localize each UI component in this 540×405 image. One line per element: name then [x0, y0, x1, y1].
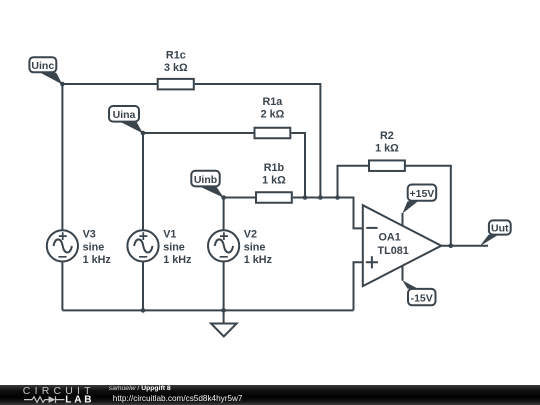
- wire R1c right terminal down to summing node: [195, 84, 321, 198]
- wire Uinb node vertical to V2 top: [223, 198, 225, 230]
- svg-text:sine: sine: [83, 241, 105, 253]
- node Uina: [109, 106, 143, 133]
- node -15V: [402, 280, 435, 305]
- junction R1c branch on summing wire: [318, 195, 323, 200]
- svg-text:2 kΩ: 2 kΩ: [261, 109, 285, 121]
- op-amp OA1: [363, 205, 442, 286]
- svg-text:3 kΩ: 3 kΩ: [164, 62, 188, 74]
- svg-text:Uina: Uina: [113, 109, 136, 121]
- svg-text:TL081: TL081: [378, 245, 409, 257]
- junction R1a branch on summing wire: [303, 195, 308, 200]
- wire +15V supply stub: [402, 213, 404, 225]
- svg-text:sine: sine: [244, 241, 266, 253]
- wire V3 bottom to ground rail: [61, 262, 63, 310]
- resistor R1b: [256, 162, 292, 203]
- junction at Uinb node: [221, 195, 226, 200]
- wire Uina node vertical to V1 top: [142, 133, 144, 230]
- svg-text:OA1: OA1: [379, 232, 401, 244]
- junction V1 on ground rail: [141, 308, 146, 313]
- resistor R2: [369, 130, 405, 171]
- svg-text:V3: V3: [83, 229, 96, 241]
- resistor R1c: [158, 49, 194, 89]
- svg-text:Uinb: Uinb: [194, 174, 217, 186]
- wire V2 bottom to ground rail: [223, 262, 225, 310]
- node Uinb: [191, 171, 223, 198]
- node Uinc: [29, 57, 62, 84]
- junction at Uinc node: [60, 82, 65, 87]
- svg-text:V2: V2: [244, 229, 257, 241]
- junction R2 branch on summing wire: [335, 195, 340, 200]
- voltage source V3: [47, 229, 112, 267]
- svg-text:LAB: LAB: [65, 394, 94, 405]
- junction at Uina node: [141, 131, 146, 136]
- footer bar: [0, 385, 540, 405]
- svg-text:sine: sine: [163, 241, 185, 253]
- svg-text:1 kHz: 1 kHz: [83, 254, 112, 266]
- wire -15V supply stub: [402, 266, 404, 281]
- wire R1a right terminal down to summing node: [291, 133, 305, 198]
- footer url text: [113, 395, 243, 403]
- svg-text:R1b: R1b: [264, 162, 285, 174]
- node +15V: [402, 185, 436, 214]
- wire Uinb node to R1b left terminal: [224, 197, 255, 199]
- ground: [211, 324, 237, 337]
- wire ground stub: [223, 310, 225, 323]
- wire op-amp output to Uut node: [441, 245, 488, 247]
- svg-text:1 kHz: 1 kHz: [244, 254, 273, 266]
- wire summing node up to R2 left terminal: [338, 166, 369, 198]
- wire V1 bottom to ground rail: [142, 262, 144, 310]
- wire Uinc node vertical to V3 top: [61, 84, 63, 230]
- node Uut: [480, 220, 511, 246]
- resistor R1a: [255, 96, 291, 138]
- svg-text:R2: R2: [380, 130, 394, 142]
- voltage source V2: [208, 229, 273, 267]
- svg-text:Uinc: Uinc: [31, 60, 54, 72]
- svg-text:R1a: R1a: [262, 96, 283, 108]
- svg-text:R1c: R1c: [166, 49, 186, 61]
- CircuitLab logo: [0, 385, 110, 405]
- wire R2 right terminal down to output node: [405, 166, 451, 246]
- svg-text:-15V: -15V: [411, 292, 433, 304]
- svg-text:V1: V1: [163, 229, 176, 241]
- svg-text:1 kHz: 1 kHz: [163, 254, 192, 266]
- wire ground rail up to op-amp non-inverting input: [354, 262, 363, 310]
- wire Uina node to R1a left terminal: [143, 132, 254, 134]
- svg-text:Uut: Uut: [491, 223, 509, 235]
- wire Uinc node to R1c left terminal: [62, 83, 157, 85]
- footer title text: [109, 386, 171, 393]
- junction V2/ground on ground rail: [221, 308, 226, 313]
- svg-text:+15V: +15V: [409, 188, 434, 200]
- wire R1b right terminal to op-amp inverting input: [293, 198, 363, 229]
- junction at output node: [449, 244, 454, 249]
- svg-text:1 kΩ: 1 kΩ: [262, 174, 286, 186]
- wire ground rail: [62, 309, 353, 311]
- svg-text:1 kΩ: 1 kΩ: [375, 143, 399, 155]
- voltage source V1: [127, 229, 192, 267]
